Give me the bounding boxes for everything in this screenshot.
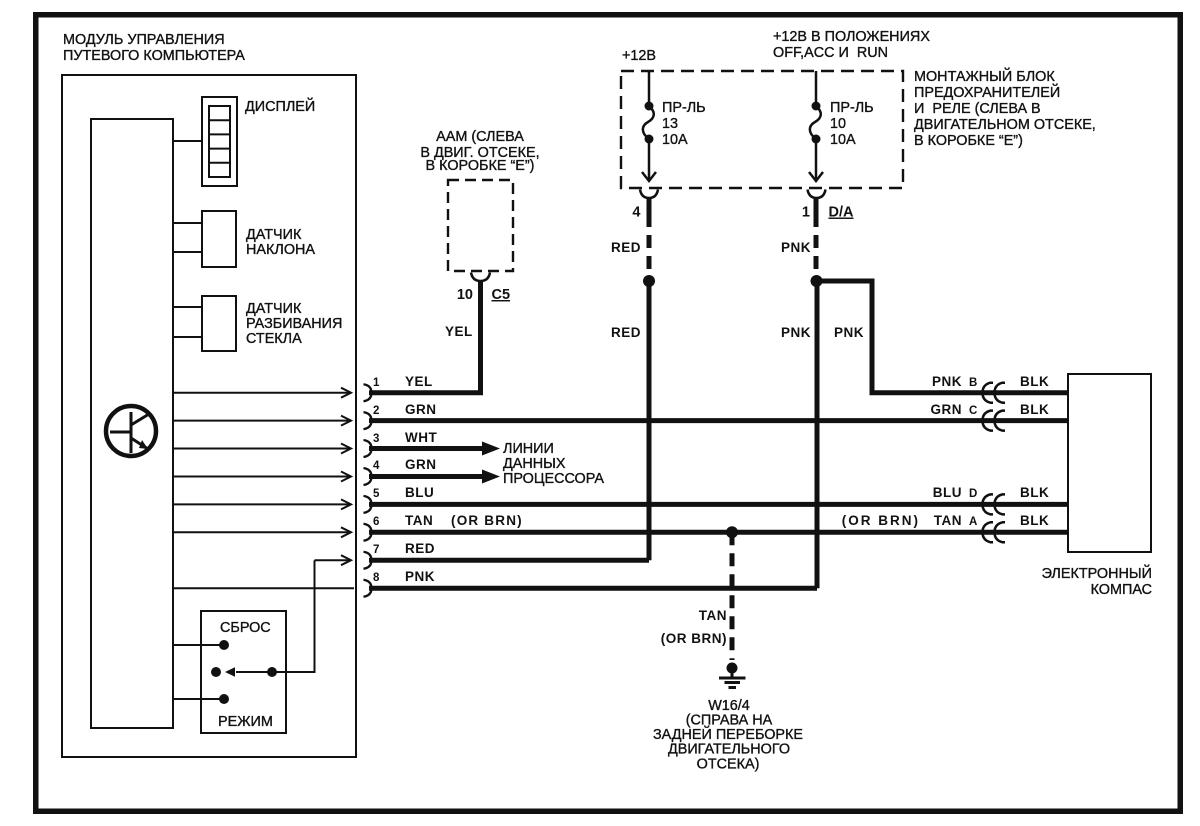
svg-text:6: 6 xyxy=(373,516,379,528)
wire RED dashed from connector to junction xyxy=(647,198,652,214)
svg-text:13: 13 xyxy=(662,116,678,132)
thin arrow row3 xyxy=(173,444,351,454)
pin 1 connector xyxy=(364,384,372,401)
wire PNK pin8 horizontal xyxy=(369,586,817,591)
svg-text:OFF,ACC И RUN: OFF,ACC И RUN xyxy=(773,45,888,61)
svg-text:BLK: BLK xyxy=(1020,374,1049,389)
wire PNK branch to compass row B xyxy=(817,281,1069,393)
svg-text:РЕЖИМ: РЕЖИМ xyxy=(218,714,273,730)
svg-text:+12В: +12В xyxy=(622,48,656,64)
connector pin 1 D/A below fuse box xyxy=(808,190,826,199)
svg-text:TAN: TAN xyxy=(934,513,962,528)
connector pin 4 below fuse box xyxy=(640,190,658,199)
svg-text:ДАТЧИК: ДАТЧИК xyxy=(246,227,302,243)
svg-text:D/A: D/A xyxy=(829,205,855,221)
tilt sensor box xyxy=(202,211,236,267)
thin arrow row4 xyxy=(173,472,351,482)
svg-text:ПУТЕВОГО КОМПЬЮТЕРА: ПУТЕВОГО КОМПЬЮТЕРА xyxy=(63,48,245,64)
svg-text:ЗАДНЕЙ ПЕРЕБОРКЕ: ЗАДНЕЙ ПЕРЕБОРКЕ xyxy=(653,725,803,743)
svg-text:4: 4 xyxy=(373,460,380,472)
switch box СБРОС / РЕЖИМ xyxy=(201,611,286,733)
svg-text:СБРОС: СБРОС xyxy=(220,620,271,636)
svg-text:YEL: YEL xyxy=(445,324,473,339)
svg-text:7: 7 xyxy=(373,544,379,556)
svg-text:1: 1 xyxy=(802,205,810,221)
pin 7 connector xyxy=(364,552,372,569)
svg-text:PNK: PNK xyxy=(781,240,811,255)
wire CPU to mode contact xyxy=(173,698,224,700)
thin arrow row1 xyxy=(173,388,351,398)
svg-text:C5: C5 xyxy=(492,287,511,303)
fuse box МОНТАЖНЫЙ БЛОК dashed xyxy=(621,71,903,188)
svg-text:ПР-ЛЬ: ПР-ЛЬ xyxy=(830,100,874,116)
svg-text:WHT: WHT xyxy=(405,430,437,445)
svg-text:ДАТЧИК: ДАТЧИК xyxy=(246,301,302,317)
reset contact dot xyxy=(219,640,229,650)
thin arrow row7 xyxy=(315,555,352,565)
svg-text:И РЕЛЕ (СЛЕВА В: И РЕЛЕ (СЛЕВА В xyxy=(914,101,1041,117)
svg-text:5: 5 xyxy=(373,488,380,500)
svg-text:10: 10 xyxy=(457,287,473,303)
wire GRN pin2 to compass connector xyxy=(369,418,1068,423)
svg-text:BLK: BLK xyxy=(1020,402,1049,417)
svg-text:В КОРОБКЕ “Е”): В КОРОБКЕ “Е”) xyxy=(426,158,535,174)
svg-text:ДИСПЛЕЙ: ДИСПЛЕЙ xyxy=(245,97,315,115)
svg-text:КОМПАС: КОМПАС xyxy=(1091,582,1152,598)
wire TAN pin6 to compass connector xyxy=(369,530,1068,535)
pin 5 connector xyxy=(364,496,372,513)
svg-text:10: 10 xyxy=(830,116,846,132)
svg-text:ПРОЦЕССОРА: ПРОЦЕССОРА xyxy=(503,471,604,487)
svg-text:МОДУЛЬ УПРАВЛЕНИЯ: МОДУЛЬ УПРАВЛЕНИЯ xyxy=(63,32,225,48)
svg-text:GRN: GRN xyxy=(405,457,437,472)
svg-text:ОТСЕКА): ОТСЕКА) xyxy=(697,757,760,773)
transistor Q1 symbol in circle xyxy=(106,406,156,456)
wire CPU to reset contact xyxy=(173,644,224,646)
fuse F13 xyxy=(642,71,656,181)
CPU inner box xyxy=(91,119,173,728)
svg-text:D: D xyxy=(969,488,977,500)
svg-text:В КОРОБКЕ “Е”): В КОРОБКЕ “Е”) xyxy=(914,133,1023,149)
compass box xyxy=(1068,374,1151,552)
svg-text:PNK: PNK xyxy=(781,325,811,340)
wire GRN pin4 processor data line xyxy=(369,474,486,479)
wire BLU pin5 to compass connector xyxy=(369,502,1068,507)
svg-text:НАКЛОНА: НАКЛОНА xyxy=(246,242,315,258)
svg-text:10А: 10А xyxy=(830,132,856,148)
svg-text:YEL: YEL xyxy=(405,374,433,389)
svg-text:4: 4 xyxy=(632,205,640,221)
junction dot PNK xyxy=(811,275,823,287)
wire TAN dashed drop to ground xyxy=(730,532,735,660)
pin 4 connector xyxy=(364,468,372,485)
AAM dashed box xyxy=(448,180,513,271)
thin arrow row5 xyxy=(173,499,351,509)
wire CPU to tilt sensor bottom xyxy=(173,251,202,253)
thin line row8 xyxy=(173,587,354,589)
wire YEL pin1 to C5 xyxy=(369,280,481,393)
compass connector row A xyxy=(983,522,1006,542)
thin arrow row6 xyxy=(173,527,351,537)
svg-text:TAN: TAN xyxy=(699,608,727,623)
svg-text:+12В В ПОЛОЖЕНИЯХ: +12В В ПОЛОЖЕНИЯХ xyxy=(773,29,930,45)
svg-text:RED: RED xyxy=(611,325,641,340)
svg-text:(OR BRN): (OR BRN) xyxy=(842,513,920,528)
display box xyxy=(202,97,237,186)
svg-text:МОНТАЖНЫЙ БЛОК: МОНТАЖНЫЙ БЛОК xyxy=(914,67,1055,85)
svg-text:BLK: BLK xyxy=(1020,485,1049,500)
svg-text:C: C xyxy=(969,405,977,417)
svg-text:(OR BRN): (OR BRN) xyxy=(451,513,523,528)
svg-text:BLU: BLU xyxy=(933,485,962,500)
svg-text:ДВИГАТЕЛЬНОГО: ДВИГАТЕЛЬНОГО xyxy=(668,742,790,758)
svg-text:ДАННЫХ: ДАННЫХ xyxy=(503,456,566,472)
compass connector row D xyxy=(983,494,1006,514)
glass breakage sensor box xyxy=(202,296,236,351)
svg-text:PNK: PNK xyxy=(405,569,435,584)
svg-text:ЭЛЕКТРОННЫЙ: ЭЛЕКТРОННЫЙ xyxy=(1042,564,1152,582)
wire CPU to glass sensor bottom xyxy=(173,336,202,338)
wire PNK dashed from connector to junction xyxy=(814,198,819,214)
junction dot TAN xyxy=(726,526,738,538)
svg-text:B: B xyxy=(969,377,977,389)
wire RED vertical solid xyxy=(647,281,652,560)
svg-text:RED: RED xyxy=(611,240,641,255)
svg-text:ААМ (СЛЕВА: ААМ (СЛЕВА xyxy=(436,129,524,145)
connector C5 xyxy=(471,273,490,282)
svg-text:1: 1 xyxy=(373,377,380,389)
switch wiper: dot, arrow, common dot xyxy=(211,667,221,677)
svg-text:ДВИГАТЕЛЬНОМ ОТСЕКЕ,: ДВИГАТЕЛЬНОМ ОТСЕКЕ, xyxy=(914,117,1096,133)
module U1 box (trip computer control module) xyxy=(62,75,356,757)
svg-text:GRN: GRN xyxy=(931,402,963,417)
pin 2 connector xyxy=(364,412,372,429)
pin 6 connector xyxy=(364,524,372,541)
wire WHT pin3 processor data line xyxy=(369,446,486,451)
thin arrow row2 xyxy=(173,416,351,426)
wire RED pin7 horizontal xyxy=(369,558,649,563)
pin 3 connector xyxy=(364,440,372,457)
junction dot RED xyxy=(643,275,655,287)
wire PNK vertical solid xyxy=(815,281,820,588)
mode contact dot xyxy=(219,694,229,704)
wire CPU to glass sensor top xyxy=(173,306,202,308)
svg-text:РАЗБИВАНИЯ: РАЗБИВАНИЯ xyxy=(246,316,342,332)
svg-text:TAN: TAN xyxy=(405,513,433,528)
ground W16/4 xyxy=(719,663,746,688)
svg-text:8: 8 xyxy=(373,572,380,584)
svg-text:RED: RED xyxy=(405,541,435,556)
svg-text:10А: 10А xyxy=(662,132,688,148)
compass connector row B xyxy=(983,383,1006,403)
wire CPU to display xyxy=(173,140,202,142)
svg-text:ПРЕДОХРАНИТЕЛЕЙ: ПРЕДОХРАНИТЕЛЕЙ xyxy=(914,83,1060,101)
wire switch common to row7 xyxy=(272,560,315,672)
compass connector row C xyxy=(983,411,1006,431)
svg-text:BLK: BLK xyxy=(1020,513,1049,528)
svg-text:(OR BRN): (OR BRN) xyxy=(661,631,727,646)
wire CPU to tilt sensor top xyxy=(173,222,202,224)
svg-text:2: 2 xyxy=(373,405,379,417)
svg-text:GRN: GRN xyxy=(405,402,437,417)
svg-text:ПР-ЛЬ: ПР-ЛЬ xyxy=(662,100,706,116)
svg-text:3: 3 xyxy=(373,433,379,445)
fuse F10 xyxy=(809,71,823,181)
svg-text:BLU: BLU xyxy=(405,485,434,500)
pin 8 connector xyxy=(364,580,372,597)
svg-text:A: A xyxy=(969,516,977,528)
svg-text:СТЕКЛА: СТЕКЛА xyxy=(246,331,302,347)
svg-text:PNK: PNK xyxy=(834,325,864,340)
svg-text:PNK: PNK xyxy=(932,374,962,389)
svg-text:ЛИНИИ: ЛИНИИ xyxy=(503,441,554,457)
